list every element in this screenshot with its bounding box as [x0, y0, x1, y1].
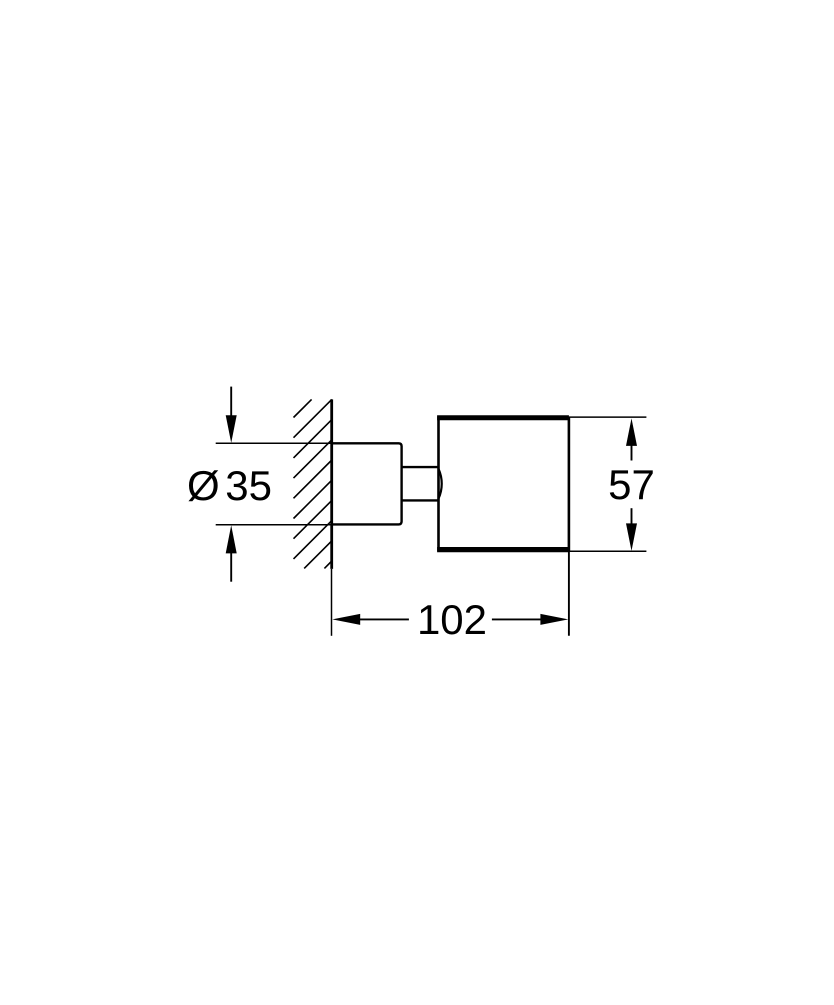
dim 35 top extension line — [216, 442, 332, 444]
stem top line — [402, 466, 439, 468]
ball joint arc — [439, 469, 442, 499]
dim 102 left line — [359, 618, 409, 620]
dim 102 left extension line — [331, 569, 333, 636]
dim 35 upper arrowhead — [226, 415, 237, 443]
holder body top thick edge — [437, 415, 569, 420]
dim 35 lower arrow line — [230, 553, 232, 582]
dim 57 upper line — [631, 444, 633, 461]
right edge extension line — [568, 417, 570, 636]
dim 35 bottom extension line — [216, 524, 332, 526]
holder body outline — [439, 418, 569, 550]
dim 57 lower arrowhead — [626, 523, 637, 551]
dim 35 lower arrowhead — [226, 525, 237, 553]
dim 57 lower line — [631, 508, 633, 524]
dim 102 right line — [492, 618, 542, 620]
dim 57 top extension line — [569, 416, 646, 418]
dim 102 left arrowhead — [332, 614, 360, 625]
dim 57 upper arrowhead — [626, 418, 637, 446]
holder body bottom thick edge — [437, 547, 569, 552]
wall line — [330, 399, 333, 569]
svg-text:35: 35 — [225, 462, 272, 509]
wall hatching — [294, 399, 332, 568]
dim 102 right arrowhead — [540, 614, 568, 625]
dim 35 upper arrow line — [230, 387, 232, 416]
dim 57 bottom extension line — [569, 550, 646, 552]
escutcheon base plate — [332, 443, 402, 524]
svg-text:57: 57 — [608, 461, 655, 508]
svg-text:Ø: Ø — [187, 462, 220, 509]
stem bottom line — [402, 499, 439, 501]
svg-text:102: 102 — [417, 596, 487, 643]
